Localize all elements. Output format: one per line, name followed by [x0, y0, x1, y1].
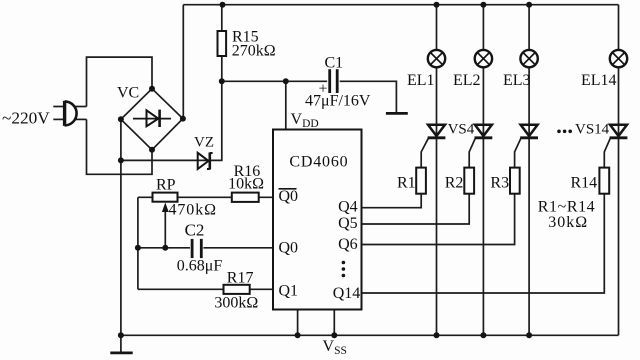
svg-text:R1~R14: R1~R14	[538, 199, 596, 216]
svg-text:Q0: Q0	[279, 240, 299, 257]
svg-text:Q6: Q6	[338, 236, 358, 253]
svg-text:R2: R2	[445, 175, 464, 192]
svg-text:VZ: VZ	[194, 135, 214, 151]
svg-text:R3: R3	[490, 175, 509, 192]
svg-text:47μF/16V: 47μF/16V	[305, 93, 371, 110]
svg-text:470kΩ: 470kΩ	[169, 202, 217, 219]
svg-text:Q5: Q5	[338, 215, 358, 232]
svg-text:RP: RP	[156, 177, 176, 194]
svg-text:VS14: VS14	[575, 122, 610, 138]
svg-text:CD4060: CD4060	[289, 154, 348, 171]
svg-text:0.68μF: 0.68μF	[177, 258, 223, 275]
svg-text:R14: R14	[571, 175, 598, 192]
svg-text:R17: R17	[227, 269, 254, 286]
svg-text:Q1: Q1	[279, 283, 299, 300]
svg-text:~220V: ~220V	[2, 109, 50, 128]
svg-text:Q0: Q0	[279, 188, 299, 205]
svg-text:C1: C1	[325, 55, 344, 72]
svg-text:EL3: EL3	[503, 72, 531, 89]
svg-text:270kΩ: 270kΩ	[232, 43, 276, 60]
svg-text:300kΩ: 300kΩ	[214, 295, 258, 312]
svg-text:30kΩ: 30kΩ	[548, 214, 588, 231]
svg-text:VC: VC	[117, 85, 139, 102]
svg-text:EL2: EL2	[453, 72, 481, 89]
svg-text:R1: R1	[397, 175, 416, 192]
svg-text:EL1: EL1	[407, 72, 435, 89]
svg-text:VS4: VS4	[448, 122, 475, 138]
svg-text:EL14: EL14	[581, 72, 617, 89]
svg-text:Q14: Q14	[333, 285, 361, 302]
svg-text:Q4: Q4	[338, 199, 358, 216]
svg-text:10kΩ: 10kΩ	[228, 176, 264, 193]
svg-text:C2: C2	[185, 221, 205, 240]
